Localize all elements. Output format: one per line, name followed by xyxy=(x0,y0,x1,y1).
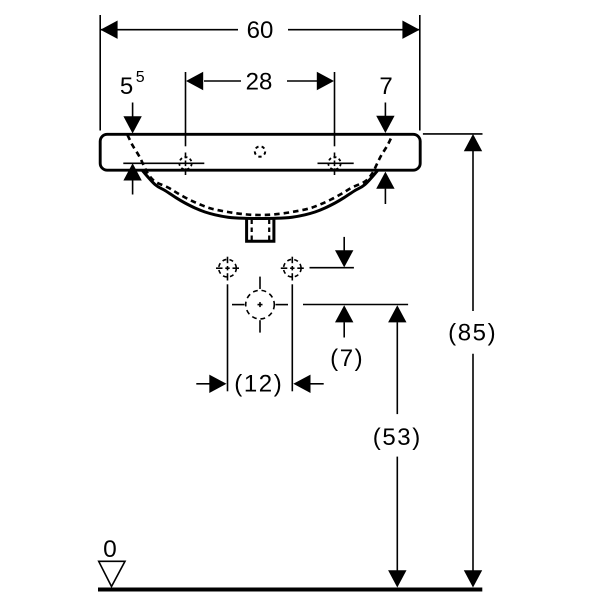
svg-text:7: 7 xyxy=(379,73,392,100)
dimension 60 extension lines xyxy=(100,15,420,131)
5.5 extension line through left tap hole xyxy=(123,162,204,164)
dimension (85) line and arrows xyxy=(464,134,482,588)
tap hole right crosshair xyxy=(318,153,354,176)
dimension (53) line and arrows xyxy=(388,305,406,587)
drain outlet xyxy=(247,218,274,241)
fixing hole right crosshair xyxy=(281,257,304,281)
svg-text:(7): (7) xyxy=(330,345,364,372)
bowl outer arc xyxy=(143,171,378,219)
dimension 60 line and arrows xyxy=(100,21,419,39)
datum triangle symbol xyxy=(99,561,125,586)
dimension 28 extension lines xyxy=(186,72,335,146)
overflow hole (dashed circle) xyxy=(255,146,265,156)
dimension 7 arrows xyxy=(376,103,394,205)
fixing holes level reference line xyxy=(310,267,354,269)
svg-text:5: 5 xyxy=(136,69,145,86)
dimension 5.5 arrows xyxy=(123,103,141,195)
drain inner pipe hidden edges xyxy=(251,220,253,241)
svg-text:5: 5 xyxy=(120,73,133,100)
svg-text:(53): (53) xyxy=(373,424,422,451)
basin inner rim edge (hidden, dashed arc) xyxy=(128,135,393,215)
fixing hole left crosshair xyxy=(216,257,239,281)
dimension (12) extension lines xyxy=(228,284,293,391)
floor line xyxy=(98,588,482,592)
svg-text:28: 28 xyxy=(246,68,273,95)
dimension 28 line and arrows xyxy=(186,72,334,90)
waste hole level reference line xyxy=(303,304,408,306)
svg-text:(85): (85) xyxy=(448,320,497,347)
svg-text:60: 60 xyxy=(247,17,274,44)
dimension (7) arrows xyxy=(335,237,353,338)
dimension (85) top reference line xyxy=(423,133,483,135)
waste hole crosshair (large) xyxy=(232,277,288,333)
dimension (12) arrows xyxy=(196,375,323,393)
tap hole left crosshair xyxy=(179,153,191,176)
svg-text:(12): (12) xyxy=(234,370,283,397)
svg-text:0: 0 xyxy=(103,536,117,563)
washbasin rim xyxy=(100,134,420,170)
